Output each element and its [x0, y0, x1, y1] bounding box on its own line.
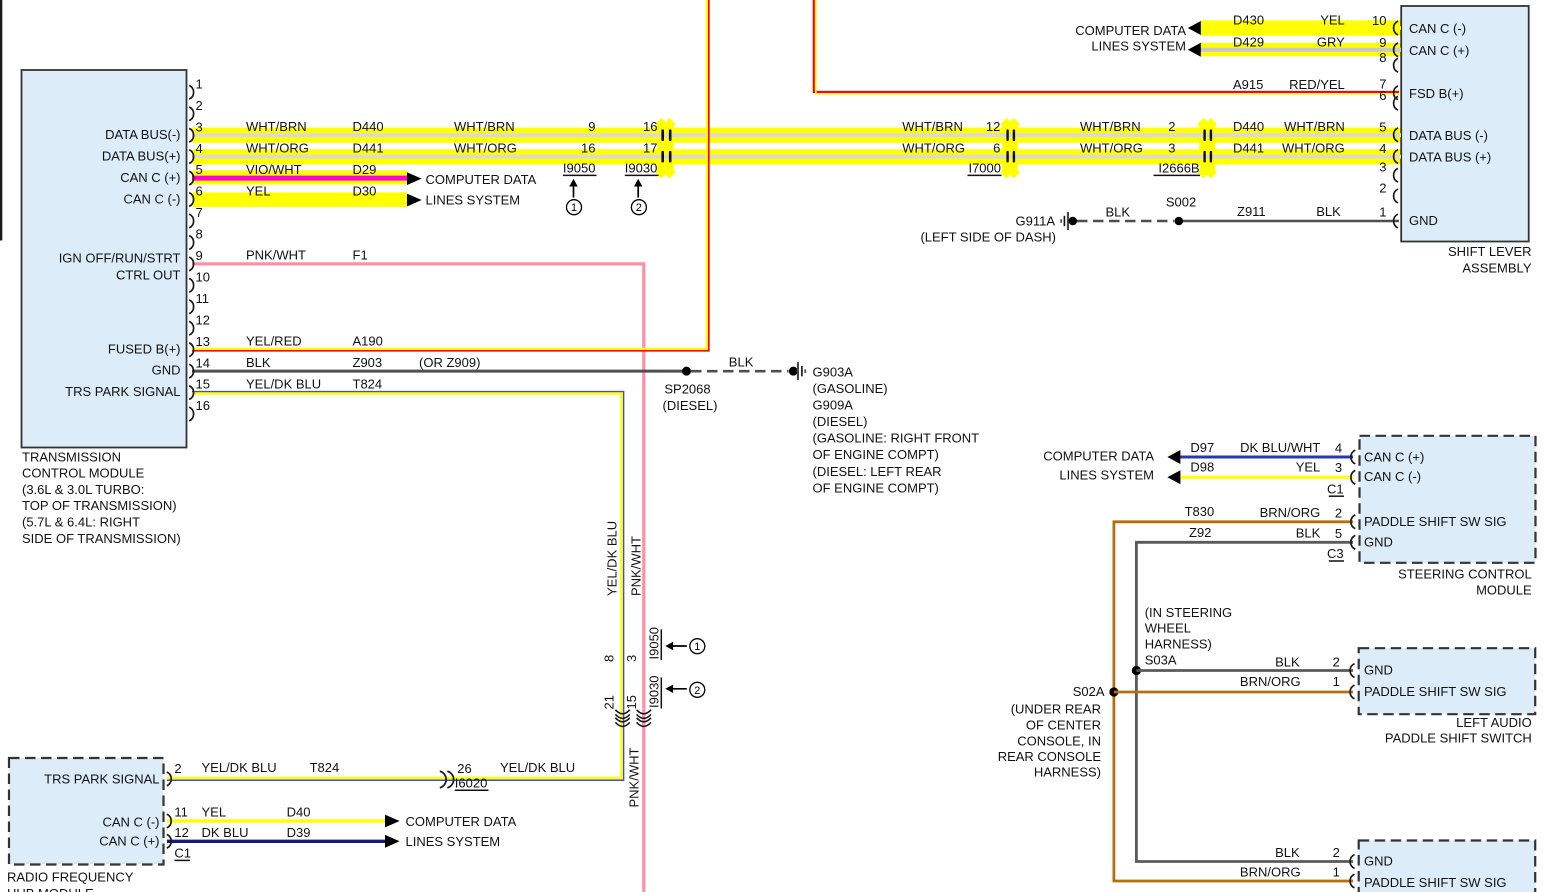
splice S002: [1175, 217, 1184, 226]
svg-text:Z911: Z911: [1237, 204, 1266, 219]
splice label S02A: [1073, 684, 1105, 699]
svg-text:(LEFT SIDE OF DASH): (LEFT SIDE OF DASH): [920, 230, 1056, 245]
wire D440 WHT/BRN data bus(-) TCM pin3 to shift lever pin5: [192, 133, 1401, 137]
arrow to computer data lines system (D30): [407, 194, 422, 207]
wire T824 YEL/DK BLU trs park signal from TCM pin15 (turns down at x=622.6): [192, 392, 624, 781]
svg-text:WHT/ORG: WHT/ORG: [1080, 140, 1143, 155]
svg-text:WHT/BRN: WHT/BRN: [1284, 119, 1345, 134]
wire BLK dashed from G911A to splice S002: [1077, 220, 1174, 223]
svg-text:S002: S002: [1166, 195, 1196, 210]
rotated connector label I9050 (vertical, underlined): [647, 627, 662, 660]
svg-text:I7000: I7000: [968, 161, 1001, 176]
svg-text:2: 2: [1335, 505, 1342, 520]
wire labels WHT/BRN 2 (I2666B section): [1080, 119, 1176, 134]
svg-text:2: 2: [1333, 845, 1340, 860]
svg-text:HARNESS): HARNESS): [1145, 637, 1212, 652]
TCM pin numbers 1-16: [196, 76, 210, 413]
wire labels D429 GRY: [1233, 35, 1387, 51]
svg-text:YEL/DK BLU: YEL/DK BLU: [202, 760, 277, 775]
module box RADIO FREQUENCY HUB MODULE (dashed): [9, 758, 164, 865]
svg-text:CONSOLE, IN: CONSOLE, IN: [1017, 733, 1101, 748]
svg-text:D430: D430: [1233, 13, 1264, 28]
svg-text:(DIESEL: LEFT REAR: (DIESEL: LEFT REAR: [813, 464, 942, 479]
module box SHIFT LEVER ASSEMBLY: [1401, 6, 1529, 242]
wire labels WHT/ORG 6 (I7000 section): [902, 140, 1000, 155]
rotated pin number 15 (I9030 vertical): [624, 695, 639, 709]
svg-text:DATA BUS (-): DATA BUS (-): [1409, 128, 1488, 143]
wire labels VIO/WHT D29: [246, 162, 376, 177]
svg-text:FSD B(+): FSD B(+): [1409, 86, 1464, 101]
svg-text:(IN STEERING: (IN STEERING: [1145, 605, 1232, 620]
svg-text:PNK/WHT: PNK/WHT: [629, 536, 644, 596]
svg-text:T824: T824: [310, 760, 340, 775]
svg-text:13: 13: [196, 334, 210, 349]
svg-text:GND: GND: [1364, 854, 1393, 869]
svg-text:CTRL OUT: CTRL OUT: [116, 267, 181, 282]
svg-text:CAN C (-): CAN C (-): [102, 815, 159, 830]
svg-text:16: 16: [581, 140, 595, 155]
svg-text:15: 15: [196, 377, 210, 392]
svg-text:YEL/DK BLU: YEL/DK BLU: [246, 376, 321, 391]
svg-text:WHT/BRN: WHT/BRN: [454, 119, 515, 134]
svg-text:PADDLE SHIFT SW SIG: PADDLE SHIFT SW SIG: [1364, 514, 1507, 529]
svg-text:17: 17: [643, 140, 657, 155]
wire labels BRN/ORG 1 (right audio): [1240, 865, 1340, 880]
svg-text:CAN C (+): CAN C (+): [1409, 43, 1469, 58]
svg-text:BLK: BLK: [729, 355, 754, 370]
svg-text:4: 4: [1335, 440, 1342, 455]
wire labels D430 YEL: [1233, 13, 1387, 29]
svg-text:8: 8: [196, 227, 203, 242]
svg-text:9: 9: [588, 119, 595, 134]
svg-text:6: 6: [993, 140, 1000, 155]
svg-text:10: 10: [1372, 13, 1386, 28]
svg-text:SP2068: SP2068: [664, 381, 710, 396]
harness note (UNDER REAR OF CENTER CONSOLE...): [998, 702, 1102, 780]
svg-text:(GASOLINE: RIGHT FRONT: (GASOLINE: RIGHT FRONT: [813, 431, 980, 446]
svg-text:D39: D39: [287, 825, 311, 840]
svg-text:9: 9: [196, 248, 203, 263]
shift lever pin numbers 8 6 5 4 3 2: [1379, 50, 1386, 196]
computer data lines system label (top right): [1075, 23, 1186, 54]
circled reference number 2 (top): [631, 200, 646, 215]
svg-text:FUSED B(+): FUSED B(+): [108, 341, 181, 356]
svg-text:A915: A915: [1233, 77, 1263, 92]
svg-text:12: 12: [986, 119, 1000, 134]
svg-text:Z92: Z92: [1189, 525, 1211, 540]
svg-text:D29: D29: [353, 162, 377, 177]
wire Z92 BLK ground (SCM pin5 down to right audio switch pin2): [1136, 542, 1353, 861]
svg-text:BLK: BLK: [246, 355, 271, 370]
svg-text:2: 2: [694, 685, 700, 697]
TCM module name label: [22, 449, 181, 546]
wire D430 YEL CAN C(-) shift lever pin10 to arrow: [1201, 26, 1402, 30]
svg-text:GND: GND: [1409, 213, 1438, 228]
reference arrow 1 pointing at vertical I9050: [665, 642, 687, 650]
wire BRN/ORG from S02A to left audio switch pin1: [1114, 691, 1353, 694]
wire label BLK (dashed ground segment): [729, 355, 754, 370]
arrow from computer data lines system (D429): [1188, 43, 1201, 57]
svg-text:(GASOLINE): (GASOLINE): [813, 381, 888, 396]
svg-text:5: 5: [196, 162, 203, 177]
wire labels BLK 2 (right audio): [1275, 845, 1340, 860]
svg-text:12: 12: [196, 312, 210, 327]
svg-text:5: 5: [1335, 526, 1342, 541]
svg-text:COMPUTER DATA: COMPUTER DATA: [1075, 23, 1186, 38]
svg-text:S03A: S03A: [1145, 652, 1177, 667]
svg-text:2: 2: [196, 98, 203, 113]
svg-text:I9030: I9030: [625, 161, 658, 176]
module box TRANSMISSION CONTROL MODULE: [22, 70, 187, 448]
wire A915 RED/YEL FSD B(+) from top of page to shift lever pin7: [814, 0, 1399, 94]
svg-text:PADDLE SHIFT SW SIG: PADDLE SHIFT SW SIG: [1364, 684, 1507, 699]
shift lever assembly pin arcs (pins 1-10): [1394, 21, 1398, 228]
svg-text:C3: C3: [1327, 546, 1344, 561]
svg-text:(DIESEL): (DIESEL): [813, 414, 868, 429]
svg-text:8: 8: [602, 655, 617, 662]
svg-text:Z903: Z903: [353, 355, 383, 370]
svg-text:SIDE OF TRANSMISSION): SIDE OF TRANSMISSION): [22, 531, 181, 546]
highlight band for data bus wire D441 (WHT/ORG): [192, 149, 1401, 164]
left audio switch internal labels: [1364, 663, 1507, 700]
svg-text:3: 3: [1168, 140, 1175, 155]
svg-text:(OR Z909): (OR Z909): [419, 355, 480, 370]
wire labels T830 BRN/ORG 2: [1185, 504, 1343, 520]
svg-text:3: 3: [1335, 460, 1342, 475]
arrow to computer data lines system (D39): [385, 835, 400, 848]
wire labels D441 WHT/ORG 4 (right section): [1233, 140, 1387, 156]
svg-text:COMPUTER DATA: COMPUTER DATA: [426, 172, 537, 187]
svg-text:REAR CONSOLE: REAR CONSOLE: [998, 749, 1102, 764]
svg-text:HUB MODULE: HUB MODULE: [7, 886, 94, 892]
harness note (IN STEERING WHEEL HARNESS) S03A: [1145, 605, 1232, 668]
svg-text:T824: T824: [353, 376, 383, 391]
svg-text:D40: D40: [287, 805, 311, 820]
wire D98 YEL CAN C(-) from arrow to SCM pin3: [1180, 476, 1353, 479]
svg-text:T830: T830: [1185, 504, 1215, 519]
splice S03A: [1132, 666, 1141, 675]
svg-text:PADDLE SHIFT SW SIG: PADDLE SHIFT SW SIG: [1364, 875, 1507, 890]
wire labels D98 YEL 3: [1190, 460, 1342, 476]
wire D39 DK BLU CAN C(+) RF hub pin12 to arrow: [167, 840, 385, 843]
connector label 26 I6020 (underlined): [455, 761, 489, 791]
rotated pin number 21 (I9030 vertical): [602, 695, 617, 709]
svg-text:TRANSMISSION: TRANSMISSION: [22, 449, 121, 464]
shift lever assembly name label: [1448, 244, 1532, 276]
wire labels YEL/DK BLU T824 (RF hub): [202, 760, 340, 775]
svg-text:D98: D98: [1190, 460, 1214, 475]
rotated label PNK/WHT (vertical wire lower): [627, 748, 642, 808]
inline connector I6020 break symbol: [440, 771, 454, 788]
inline connector break bars I7000: [1006, 129, 1015, 162]
rotated pin number 8 (I9050 vertical): [602, 655, 617, 662]
svg-text:BRN/ORG: BRN/ORG: [1240, 674, 1301, 689]
svg-text:RADIO FREQUENCY: RADIO FREQUENCY: [7, 870, 134, 885]
RF hub module name label: [7, 870, 134, 892]
wire D441 WHT/ORG data bus(+) TCM pin4 to shift lever pin4: [192, 155, 1401, 159]
svg-text:4: 4: [1379, 141, 1386, 156]
svg-text:D441: D441: [353, 140, 384, 155]
svg-text:BRN/ORG: BRN/ORG: [1260, 505, 1321, 520]
wire labels YEL/DK BLU T824: [246, 376, 382, 391]
svg-text:LINES SYSTEM: LINES SYSTEM: [426, 192, 521, 207]
svg-text:BLK: BLK: [1316, 204, 1341, 219]
arrow to computer data lines system (D40): [385, 815, 400, 828]
svg-text:2: 2: [1333, 654, 1340, 669]
wire Z903 BLK ground from TCM pin14 to splice SP2068: [192, 370, 687, 373]
svg-text:GRY: GRY: [1317, 35, 1345, 50]
svg-text:8: 8: [1379, 50, 1386, 65]
wire labels Z911 BLK 1: [1237, 204, 1387, 220]
svg-text:CAN C (-): CAN C (-): [1364, 469, 1421, 484]
svg-text:D429: D429: [1233, 35, 1264, 50]
computer data lines system label (SCM): [1043, 449, 1154, 483]
svg-text:6: 6: [1379, 88, 1386, 103]
wire Z911 BLK from S002 to shift lever pin1: [1183, 220, 1399, 223]
svg-text:CAN C (+): CAN C (+): [1364, 450, 1424, 465]
computer data lines system label (RF hub): [406, 814, 517, 849]
svg-text:7: 7: [196, 205, 203, 220]
svg-text:1: 1: [694, 641, 700, 653]
svg-text:PNK/WHT: PNK/WHT: [627, 748, 642, 808]
svg-text:VIO/WHT: VIO/WHT: [246, 162, 302, 177]
wire labels WHT/ORG 3 (I2666B section): [1080, 140, 1176, 155]
svg-text:F1: F1: [353, 248, 368, 263]
svg-text:MODULE: MODULE: [1476, 583, 1532, 598]
wire label YEL/DK BLU (right of I6020): [500, 760, 575, 775]
steering control module pin arcs (pins 4,3,2,5): [1351, 450, 1355, 549]
svg-text:YEL/RED: YEL/RED: [246, 333, 302, 348]
wire labels D97 DK BLU/WHT 4: [1190, 440, 1342, 456]
svg-text:15: 15: [624, 695, 639, 709]
rotated pin number 3 (I9050 vertical): [624, 655, 639, 662]
shift lever internal labels: [1409, 21, 1491, 228]
right audio switch internal labels: [1364, 854, 1507, 891]
svg-text:3: 3: [624, 655, 639, 662]
svg-text:2: 2: [1379, 181, 1386, 196]
wire label BLK (G911A dashed segment): [1106, 205, 1131, 220]
svg-text:OF ENGINE COMPT): OF ENGINE COMPT): [813, 447, 939, 462]
svg-text:A190: A190: [353, 333, 383, 348]
svg-text:I9050: I9050: [563, 161, 596, 176]
vertical connector breaks I9050/I9030 on YEL/DK BLU wire: [615, 710, 629, 727]
wire D29 VIO/WHT CAN C(+) TCM pin5 to arrow: [192, 176, 407, 181]
svg-text:DK BLU: DK BLU: [202, 825, 249, 840]
steering control module name label: [1398, 566, 1532, 597]
connector label I9050 (underlined): [563, 161, 597, 176]
wire labels YEL D40: [202, 805, 311, 820]
wire labels DK BLU D39: [202, 825, 311, 840]
svg-text:D440: D440: [1233, 119, 1264, 134]
svg-text:DATA BUS(-): DATA BUS(-): [105, 127, 180, 142]
svg-text:C1: C1: [1327, 481, 1344, 496]
wire labels YEL D30: [246, 183, 376, 198]
module box RIGHT AUDIO PADDLE SHIFT SWITCH (dashed, cut off at bottom): [1359, 841, 1536, 892]
svg-text:IGN OFF/RUN/STRT: IGN OFF/RUN/STRT: [59, 250, 181, 265]
wire labels A915 RED/YEL: [1233, 77, 1387, 93]
wire labels WHT/BRN D440 row (left of I9050): [246, 119, 658, 134]
svg-text:2: 2: [1168, 119, 1175, 134]
svg-text:PADDLE SHIFT SWITCH: PADDLE SHIFT SWITCH: [1385, 731, 1532, 746]
highlight band for wire D29 (VIO/WHT): [192, 170, 407, 184]
wire D97 DK BLU/WHT CAN C(+) from arrow to SCM pin4: [1180, 456, 1353, 459]
wire labels Z92 BLK 5: [1189, 525, 1342, 541]
reference arrow 1 pointing at I9050: [569, 179, 577, 198]
connector highlight chevrons at I9050/I9030 (data bus): [655, 118, 675, 179]
svg-text:I2666B: I2666B: [1158, 161, 1199, 176]
svg-text:1: 1: [1333, 865, 1340, 880]
svg-text:1: 1: [1333, 674, 1340, 689]
svg-text:COMPUTER DATA: COMPUTER DATA: [1043, 449, 1154, 464]
reference arrow 2 pointing at I9030: [634, 179, 642, 198]
connector label C1 (SCM, underlined): [1327, 481, 1344, 496]
module box LEFT AUDIO PADDLE SHIFT SWITCH (dashed): [1359, 648, 1536, 714]
inline connector break bars I2666B: [1203, 129, 1212, 162]
svg-text:HARNESS): HARNESS): [1034, 765, 1101, 780]
off-page edge line (top left page border): [0, 0, 2, 241]
svg-text:BLK: BLK: [1106, 205, 1131, 220]
wire labels BLK 2 (left audio): [1275, 654, 1340, 669]
wire F1 PNK/WHT ign off/run/strt ctrl out (horizontal from TCM pin9): [192, 264, 644, 892]
svg-text:CAN C (-): CAN C (-): [123, 192, 180, 207]
highlight band for wire D429 (GRY) top right: [1200, 43, 1401, 56]
svg-text:LINES SYSTEM: LINES SYSTEM: [1091, 38, 1186, 53]
svg-text:2: 2: [636, 202, 642, 214]
svg-text:DK BLU/WHT: DK BLU/WHT: [1240, 440, 1320, 455]
svg-text:DATA BUS(+): DATA BUS(+): [102, 148, 181, 163]
RF hub pin numbers: [174, 761, 188, 840]
svg-text:WHT/BRN: WHT/BRN: [246, 119, 307, 134]
svg-text:LINES SYSTEM: LINES SYSTEM: [1059, 468, 1154, 483]
svg-text:21: 21: [602, 695, 617, 709]
wire labels YEL/RED A190: [246, 333, 383, 348]
svg-text:BRN/ORG: BRN/ORG: [1240, 865, 1301, 880]
wire BLK dashed from SP2068 to ground G903A: [691, 370, 789, 373]
svg-text:BLK: BLK: [1296, 525, 1321, 540]
highlight band for wire D30 (YEL): [192, 192, 407, 207]
svg-text:9: 9: [1379, 35, 1386, 50]
SCM internal labels: [1364, 450, 1507, 550]
svg-text:(UNDER REAR: (UNDER REAR: [1011, 702, 1101, 717]
svg-text:11: 11: [174, 805, 188, 820]
svg-text:WHEEL: WHEEL: [1145, 621, 1191, 636]
svg-text:YEL: YEL: [1296, 460, 1321, 475]
svg-text:6: 6: [196, 184, 203, 199]
ground symbol G903A/G909A: [789, 362, 806, 380]
right audio paddle shift switch pin arcs (pins 2,1): [1350, 855, 1354, 888]
splice label S002: [1166, 195, 1196, 210]
svg-text:WHT/ORG: WHT/ORG: [246, 140, 309, 155]
highlight band for data bus wire D440 (WHT/BRN): [192, 128, 1401, 143]
svg-text:GND: GND: [1364, 663, 1393, 678]
vertical connector breaks I9050/I9030 on PNK/WHT wire: [637, 710, 651, 727]
svg-text:(5.7L & 6.4L: RIGHT: (5.7L & 6.4L: RIGHT: [22, 515, 140, 530]
svg-text:C1: C1: [174, 846, 191, 861]
svg-text:WHT/BRN: WHT/BRN: [902, 119, 963, 134]
left audio switch name label: [1385, 715, 1532, 746]
inline connector break bars I9050/I9030: [661, 129, 671, 162]
rotated label PNK/WHT (vertical wire upper): [629, 536, 644, 596]
svg-text:I6020: I6020: [455, 776, 488, 791]
rotated label YEL/DK BLU (vertical wire): [605, 521, 620, 596]
svg-text:CAN C (-): CAN C (-): [1409, 21, 1466, 36]
wire labels WHT/ORG D441 row (left of I9050): [246, 140, 658, 155]
svg-text:GND: GND: [152, 363, 181, 378]
svg-text:5: 5: [1379, 119, 1386, 134]
svg-text:RED/YEL: RED/YEL: [1289, 77, 1345, 92]
svg-text:11: 11: [196, 291, 210, 306]
highlight band for wire D430 (YEL) top right: [1200, 20, 1401, 35]
connector label I2666B (underlined): [1154, 161, 1201, 176]
svg-text:CAN C (+): CAN C (+): [120, 170, 180, 185]
wire A190 YEL/RED fused B(+) from TCM pin13 (yellow with red tracer, turns up at x=708): [192, 0, 709, 351]
svg-text:(DIESEL): (DIESEL): [663, 398, 718, 413]
svg-text:I9050: I9050: [647, 627, 662, 660]
RF hub internal labels: [44, 771, 159, 848]
svg-text:D97: D97: [1190, 440, 1214, 455]
TCM connector pin arcs (pins 1-16): [189, 85, 193, 421]
svg-text:12: 12: [174, 825, 188, 840]
svg-text:GND: GND: [1364, 534, 1393, 549]
svg-text:OF CENTER: OF CENTER: [1026, 717, 1101, 732]
svg-text:TRS PARK SIGNAL: TRS PARK SIGNAL: [44, 771, 159, 786]
svg-text:D441: D441: [1233, 140, 1264, 155]
wire labels BLK Z903 (OR Z909): [246, 355, 480, 370]
svg-text:WHT/ORG: WHT/ORG: [902, 140, 965, 155]
connector highlight chevrons at I7000 (data bus): [1000, 118, 1020, 179]
svg-text:BLK: BLK: [1275, 845, 1300, 860]
svg-text:S02A: S02A: [1073, 684, 1105, 699]
svg-text:10: 10: [196, 269, 210, 284]
wire D30 YEL CAN C(-) TCM pin6 to arrow: [192, 198, 407, 202]
svg-text:CAN C (+): CAN C (+): [99, 834, 159, 849]
reference arrow 2 pointing at vertical I9030: [665, 685, 687, 693]
svg-text:DATA BUS (+): DATA BUS (+): [1409, 150, 1491, 165]
wire D429 GRY CAN C(+) shift lever pin9 to arrow: [1201, 48, 1402, 52]
connector label C1 (RF hub, underlined): [174, 846, 191, 861]
svg-text:3: 3: [1379, 160, 1386, 175]
svg-text:WHT/ORG: WHT/ORG: [454, 140, 517, 155]
wire labels D440 WHT/BRN 5 (right section): [1233, 119, 1387, 135]
arrow from computer data lines system (D97): [1167, 450, 1180, 464]
wire labels BRN/ORG 1 (left audio): [1240, 674, 1340, 689]
svg-text:BLK: BLK: [1275, 654, 1300, 669]
computer data lines system label (TCM): [426, 172, 537, 208]
svg-text:16: 16: [643, 119, 657, 134]
arrow from computer data lines system (D98): [1167, 470, 1180, 484]
wire T830 BRN/ORG paddle shift sw sig (SCM pin2 down to right audio switch pin1): [1114, 522, 1353, 881]
svg-text:1: 1: [1379, 205, 1386, 220]
wire BLK from S03A to left audio switch pin2: [1136, 669, 1353, 672]
svg-text:3: 3: [196, 119, 203, 134]
circled reference number 2 (vertical wires): [690, 682, 705, 697]
arrow from computer data lines system (D430): [1188, 21, 1201, 35]
circled reference number 1 (top): [567, 200, 582, 215]
svg-text:YEL: YEL: [1320, 13, 1345, 28]
module box STEERING CONTROL MODULE (dashed): [1360, 436, 1536, 563]
svg-text:TRS PARK SIGNAL: TRS PARK SIGNAL: [65, 384, 180, 399]
wire labels WHT/BRN 12 (I7000 section): [902, 119, 1000, 134]
svg-text:I9030: I9030: [647, 675, 662, 708]
svg-text:WHT/BRN: WHT/BRN: [1080, 119, 1141, 134]
connector label I7000 (underlined): [968, 161, 1002, 176]
wire labels PNK/WHT F1: [246, 248, 368, 263]
ground symbol G911A (left side of dash): [1060, 212, 1077, 230]
svg-text:1: 1: [571, 202, 577, 214]
svg-text:G903A: G903A: [813, 365, 854, 380]
rotated connector label I9030 (vertical, underlined): [647, 675, 662, 708]
svg-text:4: 4: [196, 141, 203, 156]
